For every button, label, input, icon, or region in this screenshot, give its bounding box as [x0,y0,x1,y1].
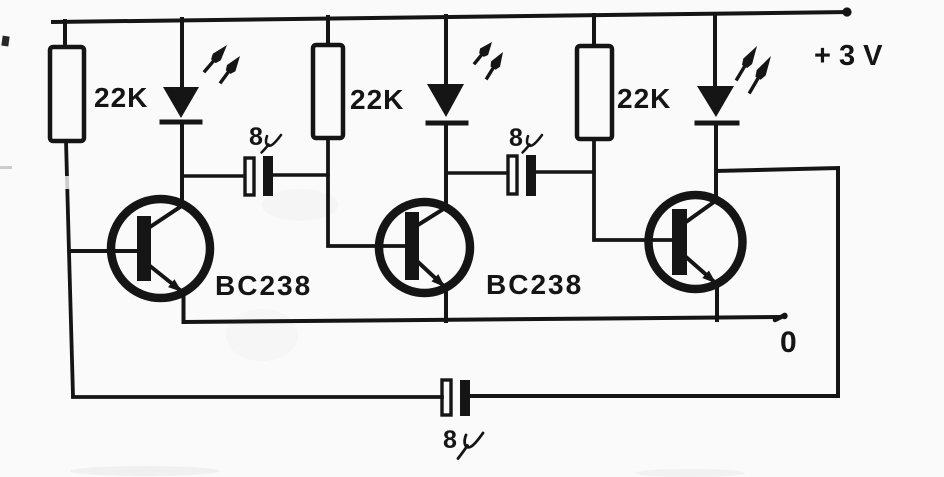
C3 value label 8u [443,426,483,459]
svg-text:22K: 22K [350,84,404,115]
LED D1 [162,19,200,205]
+3V terminal dot [842,7,851,16]
svg-text:22K: 22K [94,82,148,113]
wire: R2 bottom to Q2 base [328,138,405,246]
svg-text:8: 8 [443,426,457,454]
0 rail terminal tick [775,315,785,320]
C1 value label 8u [249,123,281,153]
svg-text:BC238: BC238 [215,270,312,301]
svg-text:0: 0 [780,326,797,359]
LED D3 light arrows [737,46,771,92]
svg-text:+ 3 V: + 3 V [814,40,883,72]
+3V supply rail (top wire) [53,12,848,22]
svg-text:22K: 22K [617,83,671,114]
capacitor C3 8u (feedback, bottom) [73,380,470,416]
resistor R2 22K [313,17,343,138]
C2 value label 8u [509,124,542,153]
capacitor C2 8u (Q2 collector to Q3 base node) [448,155,594,196]
wire: Q2 emitter to 0 rail [444,287,448,321]
0 rail (bottom common wire) [184,317,780,322]
transistor Q1 BC238 [70,199,210,298]
transistor Q2 BC238 [379,202,470,293]
wire: R3 bottom to Q3 base [594,139,672,240]
LED D2 light arrows [475,42,503,78]
svg-text:BC238: BC238 [486,269,583,300]
feedback wire: Q3 collector node right and down [470,168,838,396]
resistor R3 22K [577,15,612,139]
svg-text:8: 8 [249,123,263,151]
wire: R1 bottom down left side to Q1 base node and bottom loop [66,141,73,396]
wire: Q1 emitter to 0 rail [182,291,186,322]
LED D1 light arrows [205,45,240,82]
LED D2 [427,16,466,208]
capacitor C1 8u (Q1 collector to Q2 base node) [184,156,328,196]
svg-text:8: 8 [509,124,523,152]
wire: Q3 collector node down to circle [714,171,718,201]
resistor R1 22K [50,21,84,141]
transistor Q3 BC238 [649,195,743,289]
LED D3 [697,14,737,171]
wire: Q3 emitter to 0 rail [715,283,719,320]
